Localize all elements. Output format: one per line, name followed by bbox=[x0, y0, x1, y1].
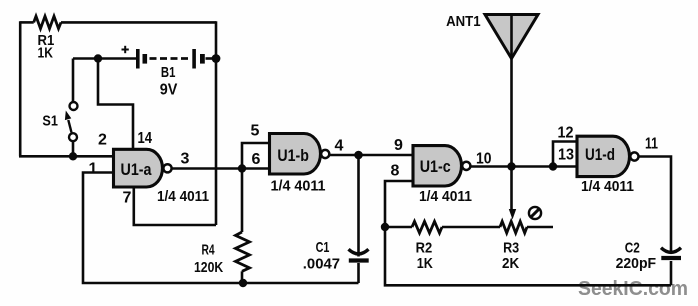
svg-text:.0047: .0047 bbox=[303, 255, 340, 272]
svg-text:U1-c: U1-c bbox=[420, 157, 451, 176]
svg-text:7: 7 bbox=[123, 190, 132, 207]
svg-text:U1-a: U1-a bbox=[121, 160, 152, 179]
svg-text:1/4 4011: 1/4 4011 bbox=[271, 179, 326, 195]
svg-text:4: 4 bbox=[335, 138, 344, 155]
svg-text:220pF: 220pF bbox=[616, 255, 657, 272]
svg-text:B1: B1 bbox=[161, 64, 176, 81]
svg-text:1/4 4011: 1/4 4011 bbox=[157, 189, 209, 205]
svg-text:2K: 2K bbox=[502, 255, 519, 272]
svg-text:U1-b: U1-b bbox=[277, 146, 309, 165]
svg-text:8: 8 bbox=[391, 163, 400, 180]
svg-text:1K: 1K bbox=[38, 44, 54, 61]
svg-text:2: 2 bbox=[98, 132, 107, 149]
svg-text:12: 12 bbox=[558, 125, 574, 142]
svg-text:C2: C2 bbox=[625, 240, 640, 257]
svg-text:R4: R4 bbox=[202, 241, 216, 258]
svg-text:13: 13 bbox=[558, 147, 574, 164]
svg-text:5: 5 bbox=[251, 123, 260, 140]
svg-text:S1: S1 bbox=[42, 112, 58, 129]
svg-text:C1: C1 bbox=[316, 239, 330, 256]
svg-text:1K: 1K bbox=[417, 255, 433, 272]
svg-text:3: 3 bbox=[181, 151, 190, 168]
svg-text:1/4 4011: 1/4 4011 bbox=[419, 189, 472, 205]
svg-text:6: 6 bbox=[252, 151, 261, 168]
svg-text:R2: R2 bbox=[416, 239, 433, 256]
svg-text:1: 1 bbox=[89, 161, 98, 178]
svg-text:ANT1: ANT1 bbox=[446, 13, 481, 30]
svg-text:9V: 9V bbox=[160, 82, 178, 99]
svg-text:14: 14 bbox=[138, 130, 153, 147]
svg-text:120K: 120K bbox=[194, 259, 223, 276]
svg-text:11: 11 bbox=[645, 136, 658, 153]
svg-text:1/4 4011: 1/4 4011 bbox=[581, 179, 634, 195]
svg-text:U1-d: U1-d bbox=[585, 145, 615, 164]
svg-text:10: 10 bbox=[476, 151, 492, 168]
svg-text:9: 9 bbox=[394, 137, 403, 154]
svg-text:R3: R3 bbox=[503, 239, 519, 256]
